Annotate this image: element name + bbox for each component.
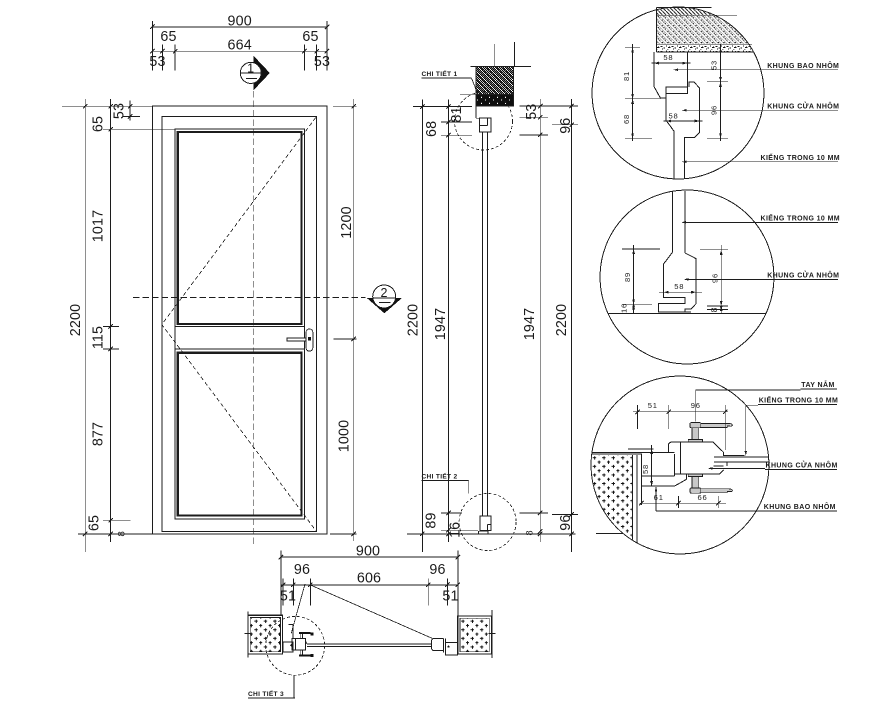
right wall edge line [491,610,493,658]
svg-text:53: 53 [149,54,165,70]
glazing bead [666,87,687,94]
svg-text:900: 900 [228,13,252,29]
left dimension line 2200 [84,99,86,552]
svg-text:51: 51 [442,589,458,605]
svg-text:2200: 2200 [68,304,84,336]
svg-text:877: 877 [91,422,107,446]
horizontal centerline dashed [133,297,366,299]
section marker 1 [253,56,269,91]
section left extension lines [413,106,472,108]
svg-text:65: 65 [160,29,176,45]
detail 3 enlarged jamb plan [588,376,838,554]
dimension 53 line left [129,101,131,121]
door leaf plan double line [307,643,431,645]
latch side leaf end [432,638,444,650]
right wall block [458,616,492,654]
svg-text:58: 58 [674,282,684,291]
svg-text:66: 66 [697,493,707,502]
threshold plate [478,531,488,534]
right dimension line 1200-1000 [353,99,355,541]
svg-text:900: 900 [356,544,380,560]
right extension lines [333,105,357,107]
svg-text:1000: 1000 [337,420,353,452]
top hinge knuckle [300,633,302,639]
lintel top edge [657,7,712,9]
svg-text:81: 81 [449,106,465,122]
plan swing line to hinge [291,584,305,634]
svg-text:96: 96 [710,273,719,283]
dim 51-96 top d3 [633,411,728,413]
lintel hatch zone [657,8,757,45]
svg-text:96: 96 [294,562,310,578]
door handle plate [306,329,313,351]
detail 1 circle [592,7,764,179]
leaf bottom rail profile [658,252,691,312]
left wall block [248,615,283,654]
plan dim 900 [281,556,458,558]
floor line [407,533,576,535]
wall top double line [592,451,675,453]
svg-text:2200: 2200 [405,304,421,336]
detail 2 enlarged sill section [600,190,840,364]
left wall edge line [247,612,249,658]
svg-text:8: 8 [524,530,534,535]
dim 53-96 right chain [720,44,722,141]
frame head leg [475,106,477,119]
svg-text:96: 96 [558,118,574,134]
svg-text:664: 664 [228,38,252,54]
svg-text:53: 53 [314,54,330,70]
svg-text:58: 58 [641,464,650,474]
door handle lever [287,338,310,341]
lintel hatched block [476,67,514,95]
dim 81-68 left chain [632,44,634,141]
wall edge line above [513,42,515,67]
line under strip [657,14,738,16]
centerline stub above [494,44,496,67]
mid rail top line [175,326,305,328]
svg-text:89: 89 [623,272,632,282]
hinge side frame jamb [283,642,293,652]
svg-text:1947: 1947 [522,308,538,340]
svg-text:KHUNG BAO NHÔM: KHUNG BAO NHÔM [764,502,836,511]
lower glass panel [178,353,302,516]
vertical section view [405,42,578,552]
svg-text:65: 65 [302,29,318,45]
glass plan lines d3 [714,456,769,458]
svg-text:2200: 2200 [554,304,570,336]
dim 58 d3 [651,445,653,486]
plan swing line to latch [310,585,432,639]
section marker 2 [367,298,403,314]
svg-text:65: 65 [91,116,107,132]
svg-text:KHUNG CỬA NHÔM: KHUNG CỬA NHÔM [767,271,839,280]
frame jamb profile d3 [640,454,642,505]
svg-text:1200: 1200 [339,206,355,238]
line above stipple [657,43,753,45]
dim 61-66 bottom d3 [639,502,726,504]
lintel bottom edge [657,51,754,53]
frame head profile [654,52,666,98]
svg-text:58: 58 [663,53,673,62]
lintel top strip hatch [657,8,757,16]
svg-text:96: 96 [558,514,574,530]
wall block hatch d3 [588,455,637,554]
plan dim 606 row [281,584,458,586]
floor line detail 2 [608,313,766,315]
svg-text:53: 53 [710,60,719,70]
bottom hinge knuckle [300,650,302,655]
left chain dimension line [110,99,112,542]
wall right edge double d3 [632,455,634,552]
upper glass panel [178,132,302,324]
handle bottom lever gray [690,488,701,493]
extension lines top [151,21,153,71]
dim 89-16 left [633,245,635,313]
dim 96-8 right [720,245,722,313]
latch side frame jamb [445,643,457,655]
mid rail bottom line [175,348,305,350]
detail circle 3 callout [266,616,325,675]
svg-text:96: 96 [429,562,445,578]
left wall break tick [245,632,252,634]
svg-text:KHUNG BAO NHÔM: KHUNG BAO NHÔM [767,61,839,70]
dim 58 detail2 [659,291,702,293]
door leaf section double line [482,132,484,516]
handle top lever gray [690,423,701,428]
svg-text:65: 65 [87,515,103,531]
lintel stipple band [657,45,757,52]
svg-text:1: 1 [247,61,254,75]
leaf step [305,641,307,644]
svg-text:115: 115 [91,326,107,349]
svg-text:TAY NẮM: TAY NẮM [801,380,834,389]
leaf bottom rail section [480,516,491,531]
lintel top edge line [471,66,532,68]
svg-text:606: 606 [357,571,381,587]
section left dim 2200 [421,99,423,552]
svg-text:1947: 1947 [433,308,449,340]
svg-text:51: 51 [648,401,658,410]
detail circle 1 callout [455,92,513,150]
leaf top rail profile [666,93,674,178]
hinge side frame flange [292,625,294,639]
door leaf [162,117,317,532]
door handle pivot [308,337,311,340]
handle stem bottom [688,474,702,476]
svg-text:2: 2 [381,286,388,300]
svg-text:KHUNG CỬA NHÔM: KHUNG CỬA NHÔM [766,461,838,470]
vertical centerline dashed [252,91,254,547]
svg-text:68: 68 [424,121,440,137]
leaf top rail section [480,118,491,132]
wall break line bottom left d3 [596,532,622,534]
detail 2 circle [600,190,774,364]
section right chain 53-1947-8 [539,99,541,542]
svg-text:1017: 1017 [91,210,107,242]
svg-text:89: 89 [424,512,440,528]
detail circle 2 callout [459,494,516,551]
svg-text:68: 68 [622,114,631,124]
section outer right dim 96-2200-96 [571,99,573,552]
svg-text:61: 61 [654,493,664,502]
frame head black band [476,95,514,106]
svg-text:KHUNG CỬA NHÔM: KHUNG CỬA NHÔM [767,102,839,111]
leaf stile profile d3 [668,442,744,456]
leaf inner edge [175,129,305,519]
section left chain 81-68-1947-89-16 [448,99,450,542]
door swing dashed lines [162,118,316,531]
glass pane lines [672,191,674,252]
svg-text:58: 58 [668,111,678,120]
svg-text:81: 81 [622,71,631,81]
hinge side leaf stile [292,639,305,651]
handle stem top [692,428,699,440]
top dimension line 900 [152,26,327,28]
dim 58 top [651,62,690,64]
left extension lines [62,105,152,107]
dim 58 mid [663,120,702,122]
section right extension lines [520,105,578,107]
horizontal section plan view [245,544,496,698]
dimension line 664 row [152,50,327,52]
lintel left edge [656,8,658,52]
door frame outer [152,106,327,534]
detail 3 circle [591,376,769,554]
door elevation view [62,13,402,552]
detail 1 enlarged head section [592,7,840,179]
